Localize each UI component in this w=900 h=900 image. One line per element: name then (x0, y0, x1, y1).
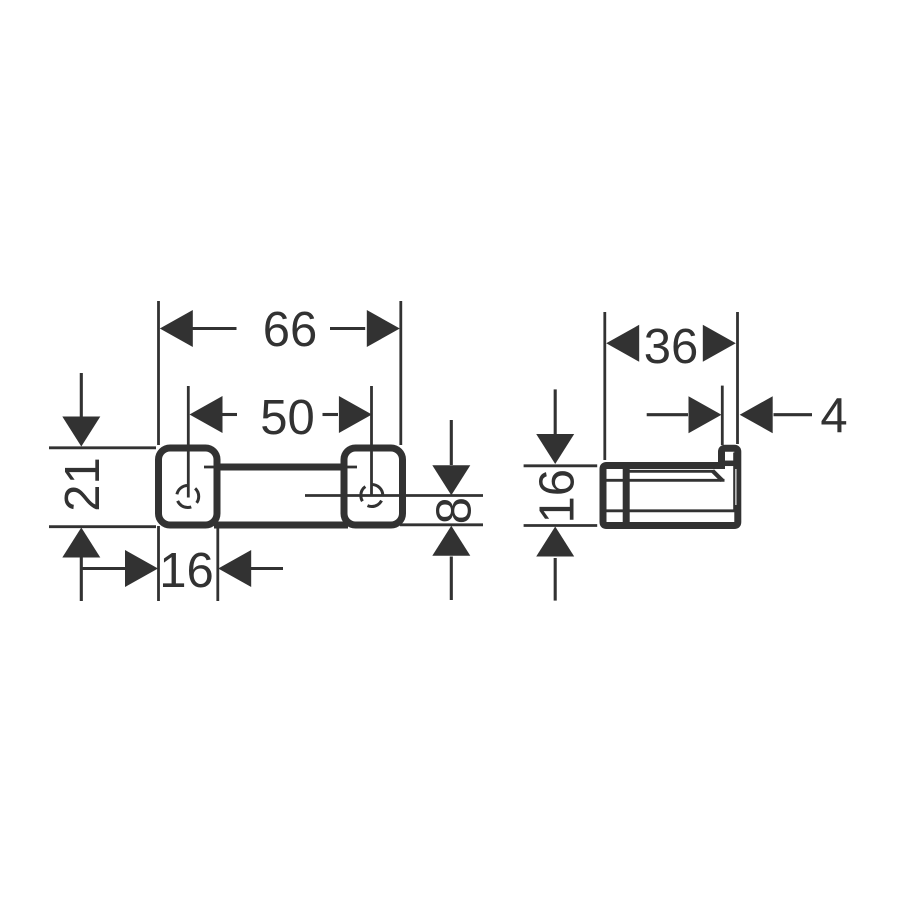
front view: left hole vertical center line (187, 386, 190, 498)
front view: left mounting plate outline (159, 448, 218, 525)
dim 16 front: right extension line (216, 526, 219, 601)
dim 21: top extension line (top edge extended left) (49, 446, 156, 449)
side view: inner line across plate and arm (604, 479, 725, 482)
dim 36: left arrowhead (606, 325, 639, 362)
dim 36: left extension line (603, 312, 606, 460)
svg-text:50: 50 (260, 391, 315, 445)
dim 4: dimension line left segment (647, 413, 688, 416)
dim 21: down arrowhead (62, 417, 100, 447)
front view: bar top edge thick (217, 464, 344, 471)
dim 4: right-pointing arrowhead (689, 396, 722, 433)
dim 8: up arrowhead (432, 526, 470, 556)
side view: outer contour with hook lip (603, 448, 738, 525)
dim 4: left extension line (lip left edge extended up) (721, 386, 724, 445)
dim 16 side: up arrowhead (536, 527, 574, 557)
front view: right hole horizontal center line (305, 494, 483, 497)
dim 50: dimension line left segment (221, 413, 237, 416)
dim 66: dimension line left segment (191, 327, 237, 330)
svg-text:8: 8 (427, 497, 481, 524)
svg-text:36: 36 (644, 320, 699, 374)
front view: left screw hole dashed circle (177, 486, 199, 508)
dim 16 front: left arrowhead (218, 550, 251, 587)
front view: bar bottom edge thick (214, 522, 348, 529)
dim 66: dimension line right segment (330, 327, 365, 330)
svg-text:21: 21 (56, 457, 110, 512)
dim 16 front: left extension line (157, 526, 160, 601)
side view: white sliver between lip inner line and outer edge (735, 469, 737, 505)
dim 21: bottom extension line (bottom edge extended left) (49, 525, 156, 528)
dim 36 and 4: right extension line (736, 312, 739, 444)
dim 4: dimension line right segment (774, 413, 813, 416)
dim 16 side: upper dimension line segment (554, 389, 557, 434)
side view: hook gap bottom band (722, 461, 736, 467)
dim 16 side: down arrowhead (536, 434, 574, 464)
dim 66: right arrowhead (367, 310, 400, 347)
dim 50: dimension line right segment (323, 413, 339, 416)
dim 66: left extension line (157, 301, 160, 445)
front view: right mounting plate outline (344, 448, 403, 525)
dim 8: down arrowhead (432, 465, 470, 495)
dim 16 side: bottom extension line (524, 524, 598, 527)
dim 21: up arrowhead (62, 528, 100, 558)
dim 8: lower dimension line segment (450, 557, 453, 601)
dim 50: left arrowhead (190, 396, 223, 433)
dim 16 side: lower dimension line segment (554, 558, 557, 601)
svg-text:16: 16 (531, 469, 585, 524)
dim 66: left arrowhead (160, 310, 193, 347)
dim 16 front: right arrowhead (125, 550, 158, 587)
front view: bar top edge thin stub (204, 466, 357, 469)
side view: hook inner diagonal (713, 471, 723, 481)
side view: hook lip inner vertical thin line (733, 453, 735, 511)
svg-text:66: 66 (263, 303, 318, 357)
side view: plate front face thick vertical (623, 464, 630, 527)
dim 16 front: dimension line left segment (81, 567, 127, 570)
front view: right screw hole dashed circle (361, 485, 383, 507)
svg-text:16: 16 (159, 544, 214, 598)
dim 16 front: dimension line right segment (250, 567, 283, 570)
dim 21: lower dimension line segment (80, 557, 83, 602)
side view: inner bottom line (604, 509, 735, 512)
svg-text:4: 4 (820, 389, 847, 443)
dim 8: upper dimension line segment (450, 420, 453, 465)
dim 50: right arrowhead (339, 396, 372, 433)
front view: right hole vertical center line (370, 386, 373, 496)
side view: arm underside thin line (626, 470, 713, 473)
dim 8: bottom extension line (bottom edge extended right) (400, 523, 483, 526)
dim 21: upper dimension line segment (80, 373, 83, 417)
dim 36: right arrowhead (703, 325, 736, 362)
dim 4: left-pointing arrowhead (740, 396, 773, 433)
dim 16 side: top extension line (524, 464, 598, 467)
dim 66: right extension line (399, 301, 402, 445)
